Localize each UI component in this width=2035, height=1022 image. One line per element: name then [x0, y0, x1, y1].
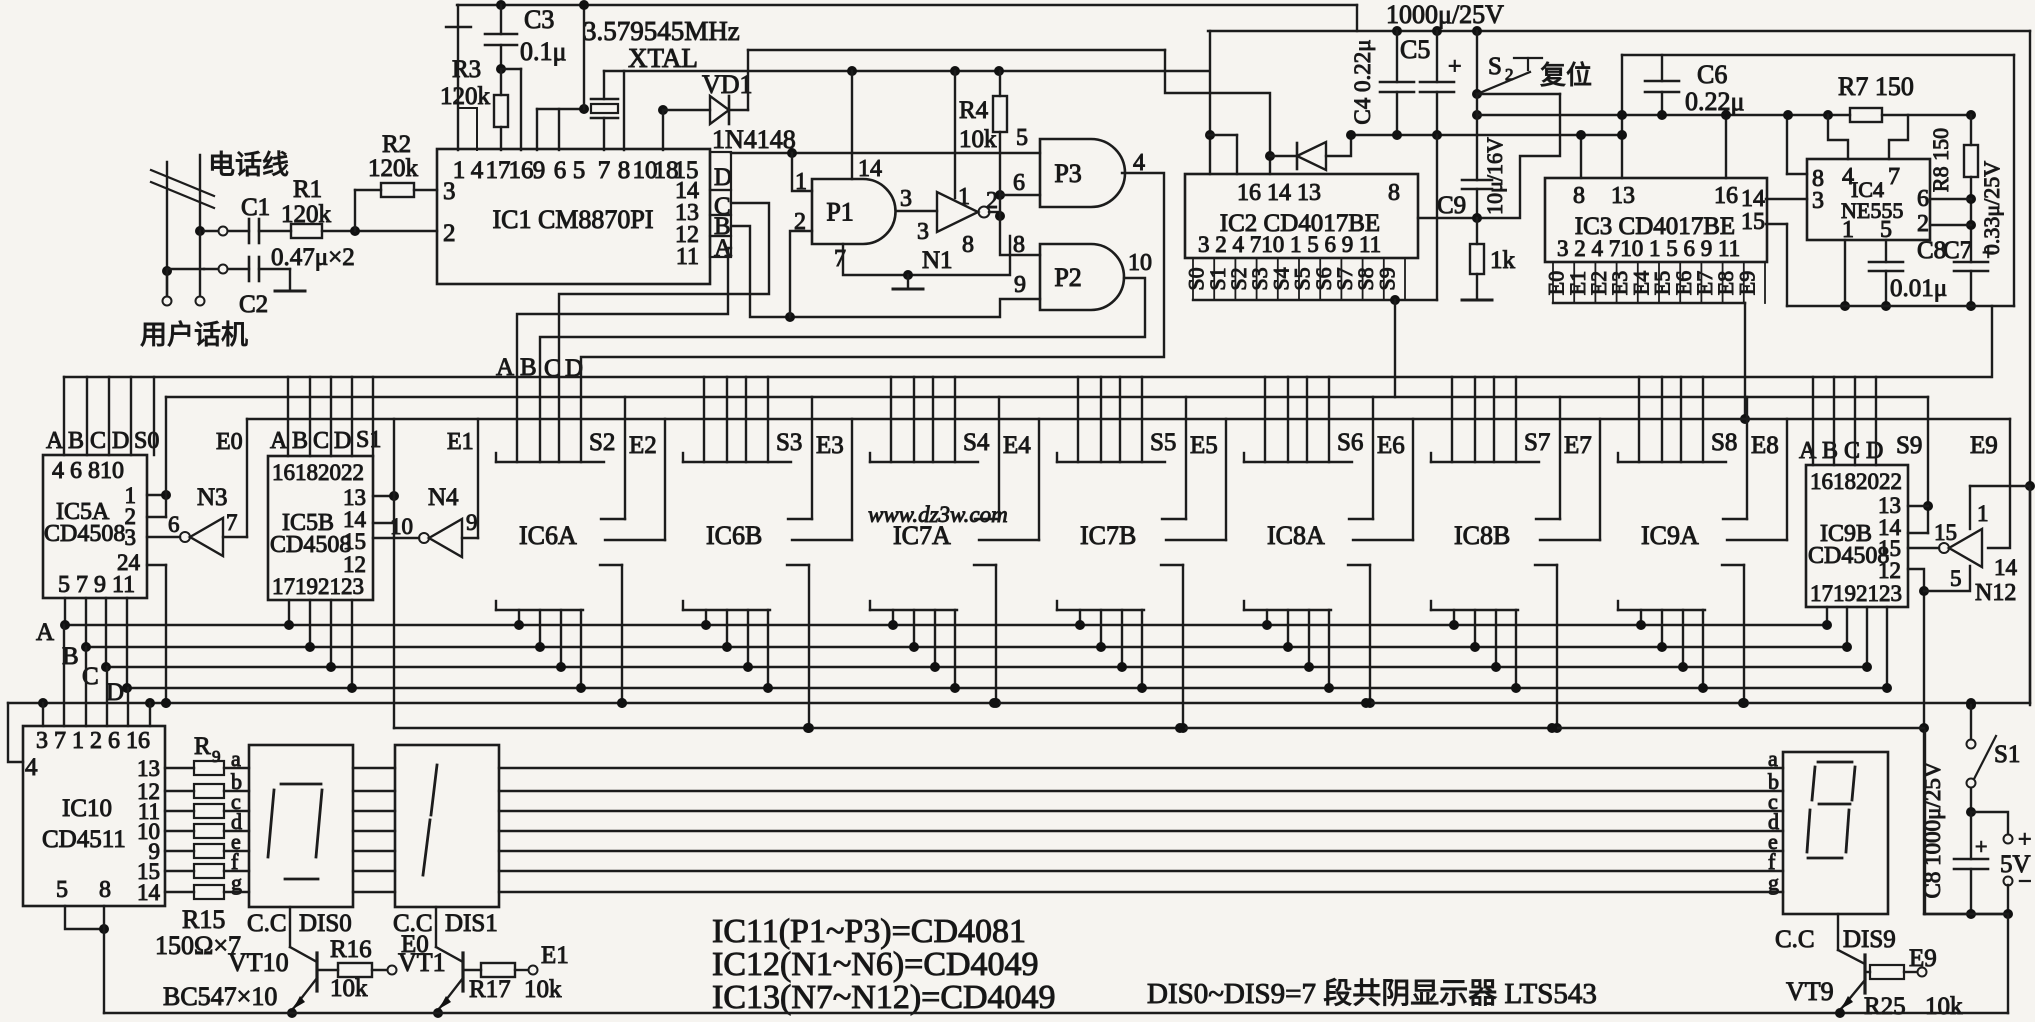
crystal XTAL symbol [591, 98, 618, 101]
svg-text:N3: N3 [197, 484, 228, 511]
svg-text:7: 7 [598, 157, 611, 184]
ground near C2 [275, 290, 305, 293]
cell IC6B input verticals [703, 377, 705, 462]
svg-text:16: 16 [1714, 183, 1738, 209]
svg-text:6: 6 [168, 512, 180, 537]
wires IC9B top pins from L1 [1812, 377, 1814, 465]
svg-text:www.dz3w.com: www.dz3w.com [868, 502, 1008, 527]
svg-text:120k: 120k [440, 83, 491, 110]
svg-text:E0: E0 [216, 429, 243, 455]
svg-text:E5: E5 [1190, 432, 1218, 459]
wire rail y55 right side frame [2013, 55, 2015, 306]
svg-text:VT10: VT10 [228, 948, 289, 977]
DIS9 digit [1818, 761, 1852, 764]
svg-text:C: C [90, 428, 106, 454]
svg-text:S7: S7 [1524, 429, 1550, 456]
svg-text:IC7B: IC7B [1080, 521, 1136, 550]
svg-text:R25: R25 [1864, 993, 1906, 1020]
svg-text:C2: C2 [239, 291, 268, 318]
svg-text:17: 17 [486, 157, 511, 184]
cell IC8B input verticals [1451, 377, 1453, 462]
svg-text:10k: 10k [1925, 993, 1963, 1020]
cell IC7A S line S4 [998, 397, 1000, 519]
svg-text:D: D [112, 428, 129, 454]
svg-text:E1: E1 [541, 942, 569, 969]
cell IC8A lower bracket to bus [1243, 601, 1245, 610]
IC IC10 CD4511 box [23, 726, 165, 906]
svg-text:CD4511: CD4511 [42, 826, 126, 853]
wire IC9B pin12 to 5V area [1924, 913, 2008, 915]
svg-text:R1: R1 [293, 176, 322, 203]
svg-text:R7 150: R7 150 [1838, 72, 1914, 101]
svg-text:10μ/16V: 10μ/16V [1482, 137, 1507, 215]
node N1 ground [903, 270, 913, 280]
wire to C1 with contact circle [219, 227, 228, 236]
svg-text:IC12(N1~N6)=CD4049: IC12(N1~N6)=CD4049 [712, 946, 1039, 983]
power rail top y5 [457, 4, 1357, 6]
node NE555 pin2 [1966, 220, 1976, 230]
cell IC7A output bracket [974, 564, 996, 566]
svg-text:g: g [231, 870, 242, 895]
wire y115 power line [1477, 114, 1850, 116]
cell IC7A E line E4 [1038, 419, 1040, 540]
AND gate P2 [1040, 244, 1124, 310]
wire S9 from L2 to IC9B pins13-14 [1927, 397, 1929, 533]
svg-text:DIS0~DIS9=7 段共阴显示器 LTS543: DIS0~DIS9=7 段共阴显示器 LTS543 [1147, 977, 1597, 1010]
svg-text:IC1 CM8870PI: IC1 CM8870PI [492, 205, 653, 234]
transistor VT9 [1837, 914, 1839, 950]
node y135 left [1205, 130, 1215, 140]
cell IC9A input bar [1617, 453, 1619, 462]
cell IC9A input verticals [1638, 377, 1640, 462]
phone line break slashes [151, 170, 214, 196]
svg-text:C6: C6 [1697, 60, 1727, 89]
svg-text:10: 10 [390, 514, 413, 539]
resistor R2 120k [381, 183, 414, 197]
svg-text:C1: C1 [241, 194, 270, 221]
cell IC8B input bar [1430, 453, 1432, 462]
svg-text:3: 3 [900, 186, 912, 212]
resistor R25 10k [1865, 971, 1870, 973]
cell IC6B E line E3 [851, 419, 853, 540]
svg-text:12: 12 [1878, 558, 1901, 583]
bus line L1 (ABCD bundle) [64, 376, 1990, 378]
svg-text:1: 1 [795, 169, 807, 195]
svg-text:E6: E6 [1377, 432, 1405, 459]
svg-text:1k: 1k [1490, 247, 1516, 274]
inverter N1 [937, 192, 978, 232]
wire IC3 pin8 drop [1580, 135, 1582, 178]
svg-text:10k: 10k [959, 126, 997, 153]
svg-text:E4: E4 [1003, 432, 1031, 459]
svg-text:0.01μ: 0.01μ [1890, 275, 1947, 302]
node P1 input drop [787, 148, 797, 158]
wires bus to IC10 top pins [42, 703, 44, 726]
svg-text:5 7 9 11: 5 7 9 11 [58, 572, 135, 598]
IC1 right tab B [710, 215, 731, 236]
svg-text:4: 4 [471, 157, 484, 184]
svg-text:11: 11 [676, 244, 699, 270]
IC IC2 CD4017BE box [1185, 174, 1418, 258]
wire N12 pin1 tie [1970, 485, 2030, 487]
svg-text:13: 13 [137, 756, 160, 781]
wire N1 power pin [950, 66, 960, 76]
switch S2 reset [1472, 26, 1482, 36]
power rail y55 [1622, 54, 2014, 56]
wire P1 input2 [790, 231, 812, 317]
transistor VT1 [435, 907, 437, 947]
resistor 1k below C9 [1476, 218, 1478, 244]
wire R2 to IC1 pin3 [414, 189, 437, 191]
capacitor C8b electrolytic 1000u [1970, 812, 1972, 859]
wire net D to rail153 [731, 152, 1040, 154]
IC IC1 CM8870PI box [437, 149, 710, 284]
svg-text:5: 5 [56, 877, 68, 903]
bracket pins 9-6 and drop from rail [537, 108, 584, 110]
wire R1 to IC1 pin2 [322, 230, 437, 232]
switch S1 [1966, 700, 1976, 710]
svg-text:R17: R17 [469, 976, 511, 1003]
svg-text:7: 7 [834, 246, 846, 272]
node N1 output [995, 211, 1005, 221]
svg-text:R15: R15 [182, 905, 225, 934]
svg-text:E3: E3 [816, 432, 844, 459]
svg-text:R2: R2 [382, 131, 411, 158]
wire junction to pin16 [501, 68, 521, 70]
svg-text:10k: 10k [330, 975, 368, 1002]
display DIS0 box [249, 745, 353, 907]
NE555 pin7 bracket [1889, 115, 1908, 159]
resistor R3 120k vertical [500, 69, 502, 95]
svg-text:4: 4 [1133, 150, 1145, 176]
svg-text:复位: 复位 [1540, 61, 1592, 90]
wire IC5B pins13-14 tie and S drop [373, 495, 394, 497]
svg-text:9: 9 [466, 510, 478, 535]
resistor R8 150 vertical [1966, 110, 1976, 120]
resistor R16 10k [317, 969, 338, 971]
cell IC7B input bar [1056, 453, 1058, 462]
svg-text:16182022: 16182022 [1810, 469, 1902, 494]
svg-text:C5: C5 [1400, 35, 1430, 64]
svg-text:DIS1: DIS1 [445, 910, 498, 937]
svg-text:16 14 13: 16 14 13 [1237, 180, 1321, 206]
svg-text:S6: S6 [1337, 429, 1363, 456]
svg-text:CD4508: CD4508 [44, 521, 125, 547]
E0-E9 output labels under IC3 [1552, 262, 1554, 303]
capacitor C8 0.01u [1885, 240, 1887, 262]
svg-text:8: 8 [99, 877, 111, 903]
svg-text:13: 13 [1611, 183, 1635, 209]
svg-text:IC8B: IC8B [1454, 521, 1510, 550]
cell IC6A lower bracket to bus [495, 601, 497, 610]
svg-text:C: C [1844, 438, 1860, 464]
svg-text:16182022: 16182022 [272, 460, 364, 485]
wire L1 to frame at right [1991, 306, 1993, 377]
svg-text:IC10: IC10 [62, 795, 112, 822]
wire node to P3 input6 [1000, 194, 1040, 196]
svg-text:−: − [2018, 869, 2032, 895]
cell IC6A E line E2 [664, 419, 666, 540]
svg-text:S1: S1 [356, 427, 381, 453]
node phone bottom [162, 266, 172, 276]
wire crystal top jog to pin8 and rail y71 [604, 70, 1208, 72]
svg-text:电话线: 电话线 [208, 150, 289, 180]
svg-text:S0: S0 [134, 428, 159, 454]
svg-text:B: B [292, 428, 308, 454]
svg-text:S3: S3 [776, 429, 802, 456]
svg-text:5: 5 [1016, 125, 1028, 151]
cell IC8B S line S7 [1559, 397, 1561, 519]
wire row2 to C2 with contact circle [219, 265, 228, 274]
svg-text:9: 9 [533, 157, 546, 184]
svg-text:D: D [334, 428, 351, 454]
cell IC9A E line E8 [1786, 419, 1788, 540]
svg-text:6: 6 [554, 157, 567, 184]
svg-text:P3: P3 [1054, 159, 1081, 188]
svg-text:5: 5 [573, 157, 586, 184]
wire junction up to R2 [354, 190, 356, 231]
svg-text:3: 3 [125, 525, 137, 550]
svg-text:D: D [1866, 438, 1883, 464]
svg-text:14: 14 [858, 156, 882, 182]
svg-text:1: 1 [1977, 501, 1989, 526]
wire S bus collector [1193, 299, 1437, 301]
svg-text:5: 5 [1950, 566, 1962, 591]
svg-text:IC13(N7~N12)=CD4049: IC13(N7~N12)=CD4049 [712, 979, 1056, 1016]
wire N1 out to node [989, 211, 1000, 213]
wire P1 pin14 from rail [847, 66, 857, 76]
wire NE555 pin1 to ground line [1844, 240, 1846, 306]
wire NE555 pin8 to rail [1787, 173, 1807, 175]
AND gate P1 [812, 179, 896, 244]
svg-text:N1: N1 [922, 247, 953, 274]
cell IC7B lower bracket to bus [1056, 601, 1058, 610]
cell IC8A input verticals [1264, 377, 1266, 462]
svg-text:14: 14 [1994, 555, 2018, 580]
svg-text:E9: E9 [1970, 432, 1998, 459]
svg-text:3.579545MHz: 3.579545MHz [583, 16, 740, 46]
wire line y135 right segment [1351, 134, 1622, 136]
capacitor C9 10u/16V [1476, 94, 1478, 180]
AND gate P3 [1040, 139, 1125, 207]
svg-text:C3: C3 [524, 5, 554, 34]
capacitor C6 0.22u [1661, 55, 1663, 81]
node phone top [195, 226, 205, 236]
wire IC9B pin12 chain down [1908, 569, 1924, 914]
svg-text:1N4148: 1N4148 [712, 125, 796, 154]
wire C1 to R1 [259, 230, 291, 232]
svg-text:8: 8 [1388, 180, 1400, 206]
power rail y31 [1208, 30, 2030, 32]
svg-text:+: + [1975, 834, 1987, 859]
svg-text:g: g [1768, 870, 1779, 895]
wire IC3 pin13 drop [1621, 55, 1623, 178]
svg-text:2: 2 [1505, 65, 1514, 84]
svg-text:XTAL: XTAL [628, 43, 698, 73]
cell IC8A input bar [1243, 453, 1245, 462]
svg-text:9: 9 [212, 747, 221, 766]
node C3 top on rail [496, 0, 506, 10]
bus drop D from P3 output [581, 173, 1164, 462]
IC1 right tab C [710, 190, 731, 215]
svg-text:1: 1 [958, 184, 970, 210]
wire 5V minus to bottom rail [1925, 913, 2008, 915]
svg-text:N4: N4 [428, 484, 459, 511]
diode at IC2 pin 13 [1269, 156, 1271, 174]
wire phone line vertical 1 [166, 162, 168, 295]
svg-text:17192123: 17192123 [272, 574, 364, 599]
bottom ground rail [104, 1012, 2008, 1014]
cell IC8A S line S6 [1372, 397, 1374, 519]
wire to 5V terminals [1971, 812, 2008, 835]
svg-text:IC11(P1~P3)=CD4081: IC11(P1~P3)=CD4081 [712, 913, 1026, 950]
cell IC6B input bar [682, 453, 684, 462]
wire P1 out to N1 [896, 210, 937, 212]
cell IC6B output bracket [787, 564, 809, 566]
wire y703 to IC10 pin4 [8, 703, 23, 762]
display DIS9 box [1783, 752, 1888, 914]
svg-text:1000μ/25V: 1000μ/25V [1386, 0, 1504, 29]
svg-text:B: B [1822, 438, 1838, 464]
wire C5 column to S row [1436, 135, 1438, 300]
capacitor C7 0.33u/25V [1954, 261, 1988, 264]
svg-text:S: S [1488, 53, 1502, 80]
resistor R17 10k [463, 969, 481, 971]
svg-text:A: A [1799, 438, 1817, 464]
svg-text:S9: S9 [1896, 432, 1922, 459]
svg-text:IC6B: IC6B [706, 521, 762, 550]
svg-text:+: + [1448, 54, 1462, 80]
wire E1 line end vertical [1924, 731, 1926, 914]
svg-text:IC8A: IC8A [1267, 521, 1325, 550]
svg-text:0.33μ/25V: 0.33μ/25V [1979, 161, 2004, 255]
cell IC8B E line E7 [1599, 419, 1601, 540]
svg-text:14: 14 [137, 880, 161, 905]
svg-text:E9: E9 [1734, 271, 1759, 295]
svg-text:4: 4 [25, 754, 38, 781]
resistor R1 120k [291, 224, 322, 238]
wire E0 drop to N3 input [223, 536, 247, 538]
wire right frame vertical [2029, 31, 2031, 705]
svg-text:15: 15 [343, 529, 366, 554]
svg-text:S4: S4 [963, 429, 990, 456]
svg-text:2: 2 [443, 220, 456, 247]
bus line L3 (E enable line) [247, 418, 2010, 420]
cell IC7A input verticals [890, 377, 892, 462]
svg-text:0.1μ: 0.1μ [520, 37, 566, 66]
wire C2 to ground [259, 268, 290, 270]
bracket pins 1-4 [459, 107, 477, 109]
resistor R4 10k [994, 66, 1004, 76]
svg-text:3 2 4 710 1 5 6 9 11: 3 2 4 710 1 5 6 9 11 [1198, 232, 1381, 257]
capacitor C3 0.1u [500, 5, 502, 34]
IC1 right tab D [710, 152, 731, 190]
svg-text:A: A [46, 428, 64, 454]
DIS0 digit 0 [281, 783, 321, 786]
ground at N1 [907, 275, 909, 287]
svg-text:9: 9 [1014, 272, 1026, 298]
svg-text:3 7 1 2 6 16: 3 7 1 2 6 16 [36, 728, 150, 754]
wire E9 from L3 to N12 input [1988, 419, 2010, 548]
wires IC9B bottom pins to bus [1826, 607, 1828, 625]
IC IC5B CD4508 box [268, 456, 373, 600]
svg-text:7: 7 [1888, 164, 1900, 190]
wire node to P2 input8 [1000, 216, 1040, 255]
svg-text:N12: N12 [1975, 580, 2016, 606]
svg-text:VT9: VT9 [1786, 977, 1834, 1006]
svg-text:3: 3 [1812, 188, 1824, 214]
svg-text:R3: R3 [452, 56, 481, 83]
svg-text:C8 1000μ/25V: C8 1000μ/25V [1920, 761, 1945, 898]
svg-text:a: a [231, 746, 241, 771]
wire ground line y306 [1787, 305, 2014, 307]
svg-text:C: C [313, 428, 329, 454]
capacitor C2 [248, 257, 251, 281]
bus line A horizontal [64, 624, 1827, 626]
wire y703 right corner from frame [2029, 486, 2031, 703]
svg-text:S5: S5 [1150, 429, 1176, 456]
svg-text:7: 7 [226, 510, 238, 535]
svg-text:C.C: C.C [1775, 926, 1815, 953]
svg-text:E9: E9 [1909, 945, 1937, 972]
svg-text:C4 0.22μ: C4 0.22μ [1350, 39, 1375, 124]
wire IC5A pins1-2 tie to L2 [147, 494, 166, 496]
svg-text:3: 3 [917, 219, 929, 245]
wire P1 input1 [792, 153, 812, 191]
svg-text:8: 8 [1573, 183, 1585, 209]
svg-text:8: 8 [962, 232, 974, 258]
cell IC7B output bracket [1161, 564, 1183, 566]
wire rail y50 from VD1 [748, 49, 1165, 51]
wire IC5A pin24 to E line y703 [147, 564, 166, 566]
svg-text:8: 8 [1013, 232, 1025, 258]
svg-text:C.C: C.C [247, 910, 287, 937]
cell IC9A output bracket [1722, 564, 1744, 566]
svg-text:VT1: VT1 [398, 948, 446, 977]
wire E1 drop to N4 input [462, 537, 478, 539]
svg-text:用户话机: 用户话机 [140, 320, 248, 350]
svg-text:10: 10 [1128, 250, 1152, 276]
wire S line drop to L2 [1394, 300, 1396, 397]
svg-text:C8: C8 [1917, 237, 1946, 264]
IC IC5A CD4508 box [43, 455, 147, 598]
cell IC6A S line S2 [624, 397, 626, 519]
svg-text:C9: C9 [1437, 192, 1466, 219]
svg-text:120k: 120k [368, 155, 419, 182]
svg-text:S2: S2 [589, 429, 615, 456]
wire net B to P-gates [731, 226, 1040, 317]
svg-text:3: 3 [443, 178, 456, 205]
wire IC3 pin16 drop [1725, 115, 1727, 178]
node NE555 pin6 [1966, 194, 1976, 204]
svg-text:17192123: 17192123 [1810, 581, 1902, 606]
svg-text:IC6A: IC6A [519, 521, 577, 550]
svg-text:P2: P2 [1054, 263, 1081, 292]
wire S2 to reset loop [1472, 110, 1482, 120]
ground below 1k [1462, 299, 1492, 302]
svg-text:D: D [714, 164, 732, 191]
svg-text:CD4508: CD4508 [270, 532, 351, 558]
wire net C down to bus [559, 203, 769, 462]
wires IC10 bottom pins [65, 906, 104, 929]
wire x394 vertical from L3 to E1 line y728 [393, 419, 395, 728]
svg-text:E8: E8 [1751, 432, 1779, 459]
cell IC8A output bracket [1348, 564, 1370, 566]
wire E bus collector [1553, 302, 1745, 304]
svg-text:6: 6 [1013, 170, 1025, 196]
svg-text:R4: R4 [959, 97, 989, 124]
cell IC7A lower bracket to bus [869, 601, 871, 610]
